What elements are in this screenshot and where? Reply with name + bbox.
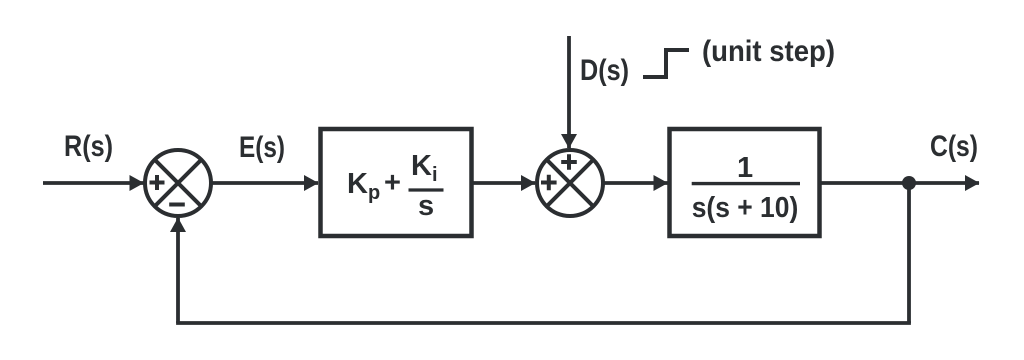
wire feedback up into S1 [176,218,180,323]
wire D(s) into S2 [567,36,571,148]
svg-text:s: s [418,190,434,222]
wire R(s) input to summing junction S1 [43,181,144,185]
wire block U1 to summing junction S2 [472,181,535,185]
summing junction S2 [537,150,603,216]
svg-text:R(s): R(s) [64,130,113,163]
unit step symbol [643,50,689,77]
svg-text:+: + [384,167,401,199]
S1 plus sign [150,175,165,190]
node output junction dot [902,176,916,190]
svg-text:1: 1 [737,152,753,184]
svg-text:s(s + 10): s(s + 10) [692,192,799,224]
svg-text:K: K [411,150,432,182]
wire feedback vertical from output node [907,183,911,323]
svg-text:(unit step): (unit step) [702,35,835,68]
wire plant output to C(s) [819,181,979,185]
svg-text:K: K [347,168,368,200]
S1 minus sign [169,203,185,207]
block U1 PI controller Kp + Ki/s [321,129,472,236]
svg-text:C(s): C(s) [930,130,978,163]
wire S1 to PI controller block [211,181,318,185]
svg-text:E(s): E(s) [239,131,285,164]
block U2 plant 1/s(s+10) [670,129,820,236]
svg-text:D(s): D(s) [580,54,629,87]
wire feedback bottom horizontal [176,321,911,325]
wire S2 to plant block [603,181,668,185]
svg-text:i: i [432,164,438,186]
S2 plus sign left [541,175,557,191]
S2 plus sign top [561,154,577,170]
summing junction S1 [145,150,211,216]
svg-text:p: p [368,182,380,204]
